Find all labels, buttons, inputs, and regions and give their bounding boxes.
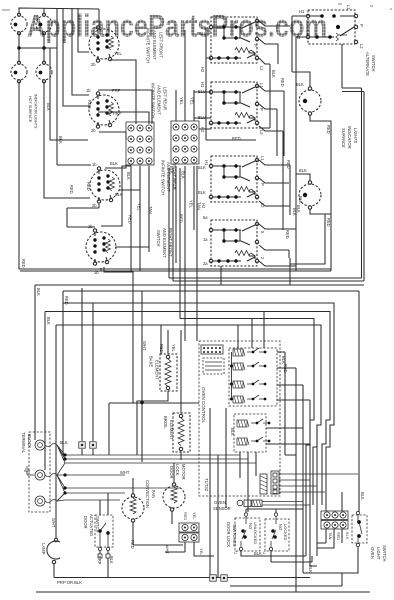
element switch box B1	[209, 17, 258, 63]
svg-text:T1/T3Z: T1/T3Z	[204, 478, 209, 492]
svg-text:ELEMENT: ELEMENT	[155, 360, 160, 380]
connector square das1	[98, 554, 102, 558]
svg-text:P: P	[253, 44, 258, 47]
svg-text:RED: RED	[183, 512, 188, 520]
svg-text:RED: RED	[280, 78, 285, 87]
relay K3	[233, 395, 266, 403]
label INFINITE SWITCH AND ELEMENT LEFT FRONT	[146, 28, 164, 63]
oven light switch	[352, 511, 367, 546]
connector strips right	[321, 511, 348, 529]
svg-text:RED: RED	[69, 185, 74, 194]
wire das	[100, 493, 108, 578]
junction dots	[17, 46, 45, 49]
wire c2-c4	[43, 33, 45, 63]
svg-text:BAKE: BAKE	[149, 356, 154, 367]
wire strip stubs	[317, 492, 342, 548]
svg-text:BLK: BLK	[254, 551, 262, 556]
svg-text:TAN: TAN	[328, 532, 333, 540]
oven sensor	[237, 500, 310, 507]
svg-text:TAN: TAN	[197, 202, 202, 210]
wire sq drops	[82, 288, 93, 455]
svg-text:ACTUATED: ACTUATED	[89, 514, 94, 536]
svg-text:SWITCH: SWITCH	[371, 55, 376, 72]
wire v303	[302, 385, 304, 573]
svg-text:H1: H1	[200, 82, 205, 88]
svg-text:RED: RED	[336, 532, 341, 540]
svg-text:PRP OR BLK: PRP OR BLK	[57, 580, 82, 585]
svg-text:LEFT REAR: LEFT REAR	[163, 87, 168, 110]
svg-text:CONVECTION: CONVECTION	[145, 480, 150, 508]
door actuated switch box	[95, 515, 113, 551]
oven control dashed outline	[199, 341, 280, 496]
svg-text:BLK: BLK	[271, 70, 276, 78]
wire SL1 top	[292, 72, 310, 87]
svg-text:H2: H2	[200, 127, 205, 133]
broil element	[173, 330, 190, 460]
surface light SL1	[299, 87, 321, 115]
svg-text:BLK: BLK	[298, 196, 303, 204]
wire junction row	[19, 47, 57, 49]
svg-text:BLK: BLK	[58, 136, 63, 144]
wire c1-c3	[18, 33, 20, 63]
svg-text:HOT SURFACE: HOT SURFACE	[28, 96, 32, 123]
svg-text:YEL: YEL	[114, 51, 122, 56]
relay K1	[233, 362, 266, 370]
svg-text:YEL: YEL	[171, 344, 176, 352]
wire B1 P right	[259, 21, 290, 64]
indicator light DS2	[36, 13, 52, 35]
wire B1 L2 down	[259, 58, 270, 128]
svg-text:SURFACE: SURFACE	[341, 128, 346, 148]
connector block mid	[179, 523, 199, 542]
surface light SL2	[299, 181, 321, 209]
label OVEN SENSOR	[213, 500, 231, 511]
wire frame y303	[63, 303, 334, 511]
label INFINITE SWITCH AND ELEMENT LEFT REAR	[151, 83, 168, 118]
infinite switch S4 (right front)	[86, 229, 116, 265]
connector sq2	[90, 442, 96, 448]
terminal block grid G1	[126, 122, 154, 165]
wire bus y285 BLK	[35, 284, 364, 286]
wire frame x180	[179, 168, 181, 319]
svg-text:LIGHT: LIGHT	[376, 547, 381, 560]
wire S4 right	[115, 166, 149, 247]
wire relay outputs	[238, 312, 310, 513]
wire bake feeds	[109, 291, 199, 462]
svg-text:LEFT FRONT: LEFT FRONT	[159, 32, 164, 58]
wire S2 PRP 2	[98, 112, 149, 124]
relay box R2	[234, 414, 266, 452]
svg-text:INDICATOR: INDICATOR	[347, 126, 352, 149]
svg-text:BROIL: BROIL	[163, 416, 168, 429]
svg-text:BLK: BLK	[345, 532, 350, 540]
svg-text:SWITCH: SWITCH	[156, 230, 161, 247]
alternate switch box	[306, 10, 357, 44]
wire frame x56	[55, 325, 57, 512]
svg-text:AND ELEMENT: AND ELEMENT	[157, 85, 162, 115]
svg-text:L2: L2	[259, 66, 264, 71]
svg-text:OVEN: OVEN	[214, 500, 226, 505]
wire ols	[296, 474, 359, 592]
label HOT SURFACE INDICATOR LIGHTS	[28, 94, 38, 129]
wire S3-S4 link	[67, 204, 99, 227]
relay K0	[233, 348, 266, 356]
door lock switch unlocked	[235, 513, 260, 551]
svg-text:LIGHTS: LIGHTS	[353, 128, 358, 143]
svg-text:P: P	[359, 24, 364, 27]
terminal block box	[29, 432, 50, 512]
wire bus y291	[63, 290, 359, 292]
label DOOR LOCK SWITCHES	[226, 522, 237, 547]
svg-text:SENSOR: SENSOR	[213, 506, 231, 511]
svg-text:DOOR: DOOR	[169, 466, 174, 479]
svg-text:BLK: BLK	[60, 440, 68, 445]
svg-text:1b: 1b	[86, 88, 91, 93]
wire SL1 bottom RED	[310, 115, 331, 271]
label SURFACE INDICATOR LIGHTS	[341, 126, 358, 149]
wire SL2 bottom	[310, 209, 331, 214]
wire x57 drop	[57, 8, 91, 165]
svg-text:RED: RED	[286, 160, 291, 169]
connector sq4	[221, 575, 227, 581]
infinite switch S3 (right rear)	[90, 167, 120, 203]
lamp	[47, 512, 60, 578]
svg-text:INFINITE SWITCH: INFINITE SWITCH	[161, 160, 166, 195]
element switch box B4	[209, 220, 258, 266]
wire S4 bottom	[101, 268, 331, 271]
bake element	[137, 354, 177, 455]
watermark AppliancePartsPros.com	[27, 8, 327, 44]
indicator light DS1	[11, 13, 27, 35]
label OVEN LIGHT SWITCH	[370, 545, 387, 562]
wire frame y311	[45, 312, 330, 506]
wire frame y318	[180, 319, 314, 557]
svg-text:RED: RED	[326, 218, 331, 227]
svg-text:1b: 1b	[88, 224, 93, 229]
wire B3 rights	[259, 160, 290, 215]
svg-text:BLK: BLK	[360, 492, 365, 500]
wire S1 top feed	[98, 9, 100, 26]
svg-text:NO: NO	[278, 524, 283, 531]
svg-text:L1: L1	[260, 156, 265, 161]
junction dots tb	[63, 453, 66, 494]
svg-text:FAN: FAN	[151, 490, 156, 498]
wire bottom y586	[230, 556, 342, 586]
svg-text:BLK: BLK	[46, 317, 51, 325]
wire x78	[78, 8, 89, 52]
svg-text:OVEN: OVEN	[370, 547, 375, 559]
infinite switch S2 (left rear)	[89, 92, 119, 128]
svg-text:NO: NO	[248, 523, 253, 530]
wire mid drops	[210, 408, 226, 578]
wire G2 to B boxes	[194, 28, 256, 140]
wire relay common	[231, 352, 233, 399]
svg-text:C: C	[263, 550, 266, 555]
wire tb squiggles	[45, 444, 256, 503]
svg-text:RED: RED	[87, 100, 92, 109]
svg-text:LAMP: LAMP	[41, 543, 46, 555]
connector square das2	[106, 554, 110, 558]
svg-text:ELEMENT: ELEMENT	[169, 420, 174, 440]
wire x50 drop	[50, 48, 88, 140]
wire S3 top	[105, 164, 126, 168]
relay K2	[233, 380, 266, 388]
wire bundle mid verticals	[176, 166, 197, 341]
watermark top dashes	[2, 4, 392, 10]
connector sq3	[210, 575, 216, 581]
svg-text:INDICATOR LIGHTS: INDICATOR LIGHTS	[34, 94, 38, 129]
svg-text:BLK: BLK	[46, 103, 51, 111]
svg-text:L1: L1	[346, 5, 351, 10]
svg-text:2b: 2b	[91, 128, 96, 133]
svg-text:2b: 2b	[91, 62, 96, 67]
wire x72	[72, 8, 89, 95]
terminal block grid G2	[171, 121, 199, 164]
wires switches to grids	[98, 28, 331, 341]
svg-text:OVEN CONTROL: OVEN CONTROL	[201, 387, 206, 424]
svg-text:BLK: BLK	[292, 208, 297, 216]
indicator light DS4	[36, 61, 52, 83]
svg-text:BLK: BLK	[110, 161, 118, 166]
svg-text:YEL: YEL	[189, 200, 194, 208]
svg-text:RED: RED	[64, 296, 69, 305]
wire frame x35 BLK	[34, 285, 36, 440]
svg-text:H2: H2	[200, 67, 205, 73]
relay box R1	[229, 348, 277, 406]
svg-text:INFINITE SWITCH: INFINITE SWITCH	[146, 28, 151, 63]
svg-text:DOOR LOCK: DOOR LOCK	[226, 522, 231, 547]
svg-text:TAN: TAN	[148, 206, 153, 214]
wire bottom y577	[54, 577, 310, 579]
label ALTERNATE SWITCH	[365, 52, 376, 76]
svg-text:BLK: BLK	[296, 82, 304, 87]
svg-text:BLK: BLK	[299, 168, 307, 173]
svg-text:H1: H1	[299, 9, 305, 14]
svg-text:WHT: WHT	[165, 545, 170, 554]
wire B2 rights	[259, 86, 284, 230]
svg-text:TERMINAL: TERMINAL	[21, 432, 26, 454]
convection fan	[122, 478, 183, 545]
svg-text:LOCK: LOCK	[175, 464, 180, 476]
svg-text:WHT: WHT	[120, 470, 130, 475]
svg-text:5a: 5a	[203, 215, 208, 220]
svg-text:H2: H2	[201, 203, 206, 209]
svg-text:C: C	[234, 550, 237, 555]
label DOOR LOCK MOTOR	[169, 464, 186, 480]
svg-text:YEL: YEL	[137, 203, 142, 211]
wire c2 drop	[43, 8, 45, 15]
svg-text:BLU: BLU	[197, 31, 205, 36]
control board connector right	[260, 471, 358, 494]
wire bottom y592	[36, 591, 370, 593]
svg-text:BLU: BLU	[198, 89, 206, 94]
wire S2 top PRP	[98, 90, 152, 124]
wire S3 right	[119, 166, 140, 190]
svg-text:L2: L2	[259, 130, 264, 135]
junction dot WHT	[140, 401, 144, 405]
wire v296	[295, 368, 297, 586]
wire S4 stub y272	[104, 267, 133, 403]
wire c4 down	[44, 82, 90, 199]
svg-text:SWITCH: SWITCH	[95, 516, 100, 533]
control connector top	[201, 345, 224, 374]
wire B4 rights	[259, 224, 296, 266]
wire S1 bottom to G1	[110, 60, 136, 124]
svg-text:SWITCHES: SWITCHES	[232, 524, 237, 546]
element switch box B2	[209, 82, 258, 128]
svg-text:RED: RED	[130, 540, 135, 549]
wire v310	[310, 400, 317, 566]
svg-text:LOCKED: LOCKED	[283, 524, 288, 541]
svg-text:H1: H1	[204, 160, 209, 166]
wire BLK right x359	[358, 291, 360, 512]
svg-text:RED: RED	[86, 182, 91, 191]
wire S2 bottom	[99, 132, 126, 140]
svg-text:RED: RED	[232, 136, 241, 141]
svg-text:WHT: WHT	[51, 518, 56, 528]
wire G2 verticals up	[176, 30, 194, 121]
svg-text:AND ELEMENT: AND ELEMENT	[152, 30, 157, 60]
svg-text:DOOR: DOOR	[83, 516, 88, 529]
svg-text:WHT: WHT	[142, 341, 147, 351]
door lock switch locked	[265, 513, 289, 551]
wire frame y325	[56, 325, 321, 505]
wire right border double	[169, 44, 364, 281]
svg-text:YEL: YEL	[190, 97, 195, 105]
svg-text:1b: 1b	[92, 162, 97, 167]
svg-text:2a: 2a	[203, 261, 208, 266]
svg-text:BLK: BLK	[198, 165, 206, 170]
wire alt switch left drops	[292, 16, 306, 271]
label BAKE ELEMENT	[149, 356, 160, 380]
svg-text:RED: RED	[285, 230, 290, 239]
svg-text:BLK: BLK	[198, 190, 206, 195]
svg-text:MOTOR: MOTOR	[181, 464, 186, 480]
wire x63	[63, 8, 89, 106]
indicator light DS3	[11, 61, 27, 83]
svg-text:BLK: BLK	[36, 288, 41, 296]
ground symbol	[24, 467, 34, 475]
wire G1 col drops	[131, 166, 149, 271]
svg-text:BLK: BLK	[181, 171, 186, 179]
label DOOR ACTUATED SWITCH	[83, 514, 100, 536]
svg-text:AND ELEMENT: AND ELEMENT	[162, 228, 167, 258]
svg-text:BLK: BLK	[230, 428, 235, 436]
svg-text:YEL: YEL	[192, 512, 197, 520]
svg-text:L2: L2	[359, 44, 364, 49]
wire SL2 top	[296, 174, 310, 181]
label TERMINAL BLOCK	[21, 432, 32, 454]
svg-text:RED: RED	[326, 125, 331, 134]
svg-text:UNLOCKED: UNLOCKED	[253, 522, 258, 544]
svg-text:P: P	[260, 183, 265, 186]
door lock motor	[163, 463, 185, 524]
wire bus y264	[290, 214, 325, 264]
svg-text:BLK: BLK	[308, 565, 313, 573]
svg-text:2b: 2b	[92, 203, 97, 208]
svg-text:1a: 1a	[203, 237, 208, 242]
connector sq1	[79, 442, 85, 448]
wire top bus	[19, 8, 99, 15]
svg-text:BLK: BLK	[126, 172, 131, 180]
wire dls	[241, 509, 306, 556]
infinite switch S1 (left front)	[89, 26, 119, 62]
wire left long RED	[19, 82, 331, 270]
wire v317	[316, 428, 318, 556]
svg-text:BLOCK: BLOCK	[27, 434, 32, 448]
svg-text:INFINITE SWITCH: INFINITE SWITCH	[151, 83, 156, 118]
label SWITCH AND ELEMENT RIGHT FRONT	[156, 228, 173, 258]
wire S4 top	[101, 166, 131, 226]
svg-text:ALTERNATE: ALTERNATE	[365, 52, 370, 76]
svg-text:RED: RED	[21, 259, 26, 268]
svg-text:RED: RED	[128, 215, 133, 224]
wire frame x63	[62, 291, 64, 455]
svg-text:P: P	[259, 108, 264, 111]
label INFINITE SWITCH AND ELEMENT RIGHT REAR	[161, 160, 177, 195]
wire B4 t2 drop	[221, 258, 290, 285]
svg-text:SWITCH: SWITCH	[382, 545, 387, 562]
svg-text:BLU: BLU	[198, 115, 206, 120]
label CONVECTION FAN	[145, 480, 156, 508]
relay K4	[237, 419, 270, 427]
wire conn drops	[165, 542, 214, 556]
svg-text:RED: RED	[179, 214, 184, 223]
relay K5	[237, 437, 270, 445]
svg-text:YEL: YEL	[199, 548, 204, 556]
wire frame x45	[44, 312, 46, 471]
element switch box B3	[209, 156, 258, 202]
svg-text:YEL: YEL	[179, 97, 184, 105]
wire RED y271	[20, 270, 296, 272]
label BROIL ELEMENT	[163, 416, 174, 440]
